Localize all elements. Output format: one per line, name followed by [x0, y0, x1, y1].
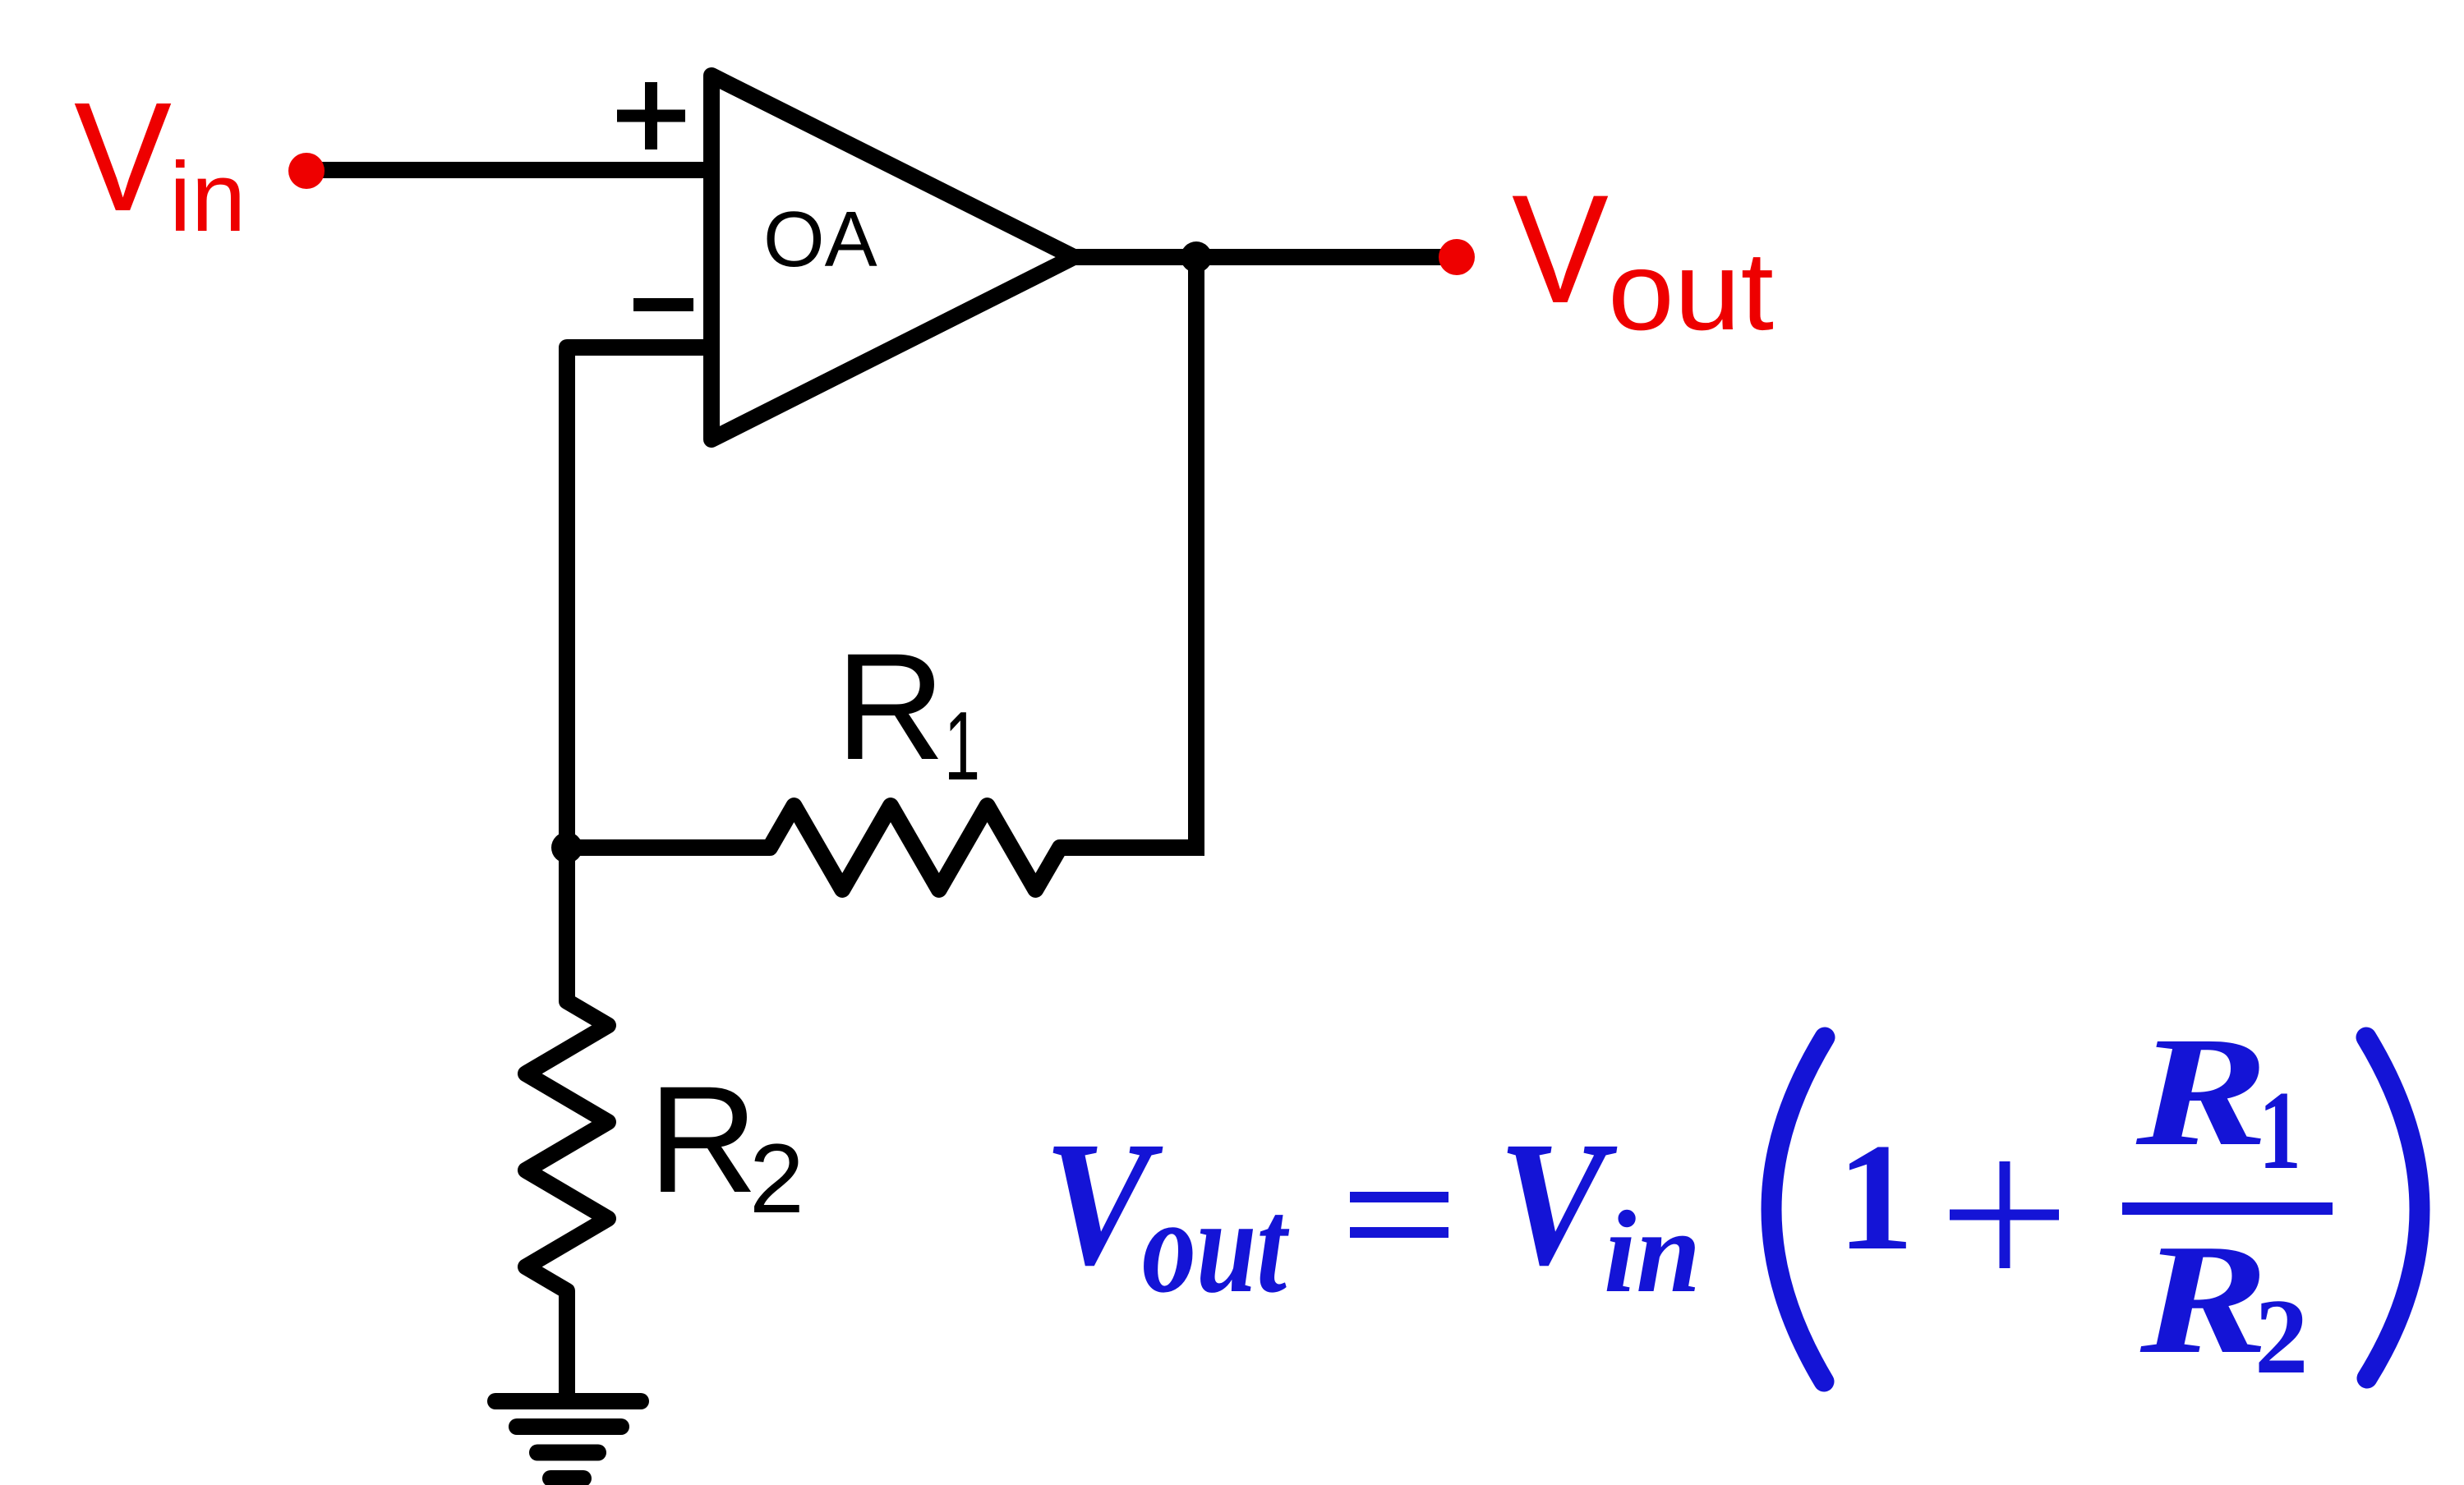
svg-text:1: 1	[1837, 1112, 1914, 1282]
Vin terminal red dot	[288, 153, 325, 189]
wire Vin to op-amp + input	[306, 162, 712, 178]
svg-text:2: 2	[2254, 1277, 2309, 1396]
svg-text:out: out	[1608, 228, 1774, 353]
Vout terminal red dot	[1439, 239, 1475, 275]
wire op-amp output to Vout terminal	[1075, 249, 1457, 265]
wire op-amp inverting input left and down to node A	[567, 347, 712, 848]
wire feedback vertical from output junction down to R1 right end	[1188, 257, 1204, 856]
plus sign at non-inverting input	[617, 82, 685, 149]
svg-text:out: out	[1142, 1170, 1289, 1321]
svg-text:V: V	[1512, 163, 1609, 335]
svg-text:in: in	[169, 142, 246, 252]
svg-text:R: R	[836, 623, 946, 792]
resistor R1 zigzag with leads from node A	[567, 806, 1196, 890]
eq right parenthesis	[2366, 1037, 2420, 1378]
node A junction dot	[551, 832, 583, 863]
resistor R2 zigzag with leads from node A down to ground	[526, 848, 608, 1401]
ground	[495, 1401, 641, 1478]
svg-text:1: 1	[2259, 1068, 2301, 1193]
svg-text:1: 1	[944, 692, 980, 801]
svg-text:V: V	[1498, 1105, 1618, 1302]
label R1	[836, 623, 980, 801]
eq plus sign	[1950, 1161, 2059, 1268]
output junction dot	[1181, 241, 1212, 273]
svg-text:R: R	[2139, 1211, 2268, 1386]
svg-text:R: R	[648, 1055, 758, 1225]
minus sign at inverting input	[633, 298, 693, 311]
equation Vout = Vin (1 + R1/R2)	[1043, 1005, 2420, 1396]
label Vin	[74, 71, 246, 252]
eq left parenthesis	[1771, 1037, 1825, 1382]
label Vout	[1512, 163, 1774, 353]
svg-text:R: R	[2135, 1005, 2268, 1179]
svg-text:OA: OA	[763, 195, 877, 283]
label R2	[648, 1055, 804, 1234]
op-amp U1 triangle	[712, 76, 1074, 439]
svg-text:2: 2	[749, 1124, 804, 1234]
svg-text:in: in	[1604, 1187, 1701, 1317]
svg-text:V: V	[74, 71, 172, 244]
eq equals sign	[1350, 1198, 1448, 1233]
eq fraction bar	[2122, 1202, 2333, 1215]
